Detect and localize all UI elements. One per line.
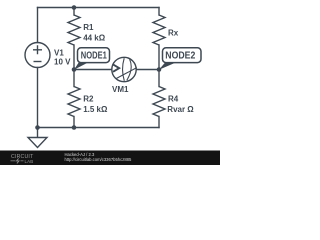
svg-text:NODE2: NODE2: [165, 50, 195, 61]
label R1 44 kΩ: [83, 23, 106, 42]
label R4 Rvar Ω: [167, 95, 194, 114]
junction ground: [35, 125, 40, 130]
wire left rail lower: [37, 68, 39, 128]
wire branch A middle lead: [73, 45, 75, 87]
wire branch B top lead: [158, 8, 160, 16]
wire bridge right segment: [136, 69, 159, 71]
junction NODE2: [157, 67, 162, 72]
node NODE2: [159, 48, 201, 70]
svg-text:VM1: VM1: [112, 85, 129, 94]
wire branch A top lead: [73, 8, 75, 16]
svg-text:Rvar Ω: Rvar Ω: [167, 105, 194, 114]
svg-text:10 V: 10 V: [54, 58, 71, 67]
svg-text:44 kΩ: 44 kΩ: [83, 33, 106, 42]
label R2 1.5 kΩ: [83, 95, 108, 114]
resistor R1: [68, 15, 80, 45]
wire branch B bottom lead: [158, 117, 160, 128]
watermark bar: [0, 151, 220, 166]
svg-text:R1: R1: [83, 23, 94, 32]
resistor R2: [68, 87, 80, 117]
watermark logo CIRCUIT LAB: [11, 154, 35, 164]
voltmeter VM1: [112, 57, 137, 81]
junction bottom of branch A: [72, 125, 77, 130]
svg-text:LAB: LAB: [25, 159, 34, 164]
svg-text:Rx: Rx: [168, 29, 179, 38]
svg-text:R4: R4: [168, 95, 179, 104]
junction NODE1: [72, 67, 77, 72]
label V1 10 V: [54, 48, 71, 66]
resistor R4: [153, 87, 165, 117]
node NODE1: [74, 48, 110, 70]
svg-text:1.5 kΩ: 1.5 kΩ: [83, 105, 108, 114]
junction top of branch A: [72, 5, 77, 10]
ground: [28, 128, 47, 148]
svg-text:V1: V1: [54, 48, 64, 57]
svg-text:R2: R2: [83, 95, 94, 104]
svg-text:NODE1: NODE1: [81, 50, 107, 61]
wire branch A bottom lead: [73, 117, 75, 128]
wire branch B middle lead: [158, 45, 160, 87]
wire bottom rail: [38, 127, 160, 129]
wire left rail upper: [37, 8, 39, 43]
resistor Rx: [153, 15, 165, 45]
voltage source V1: [25, 43, 50, 68]
wire bridge left segment: [74, 69, 112, 71]
wire top rail: [38, 7, 160, 9]
svg-text:http://circuitlab.com/c3367b5h: http://circuitlab.com/c3367b5hcz885: [65, 157, 132, 162]
